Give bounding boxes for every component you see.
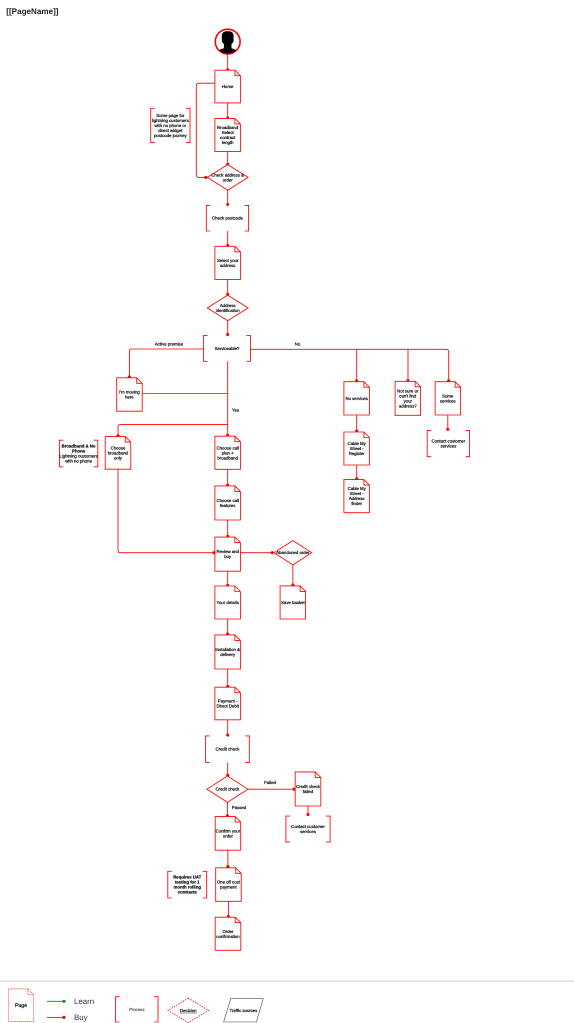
- svg-text:Home: Home: [222, 84, 234, 89]
- svg-text:Save basket: Save basket: [281, 600, 305, 605]
- svg-text:Failed: Failed: [264, 780, 276, 785]
- page Confirm your order: [215, 817, 241, 851]
- wire Abandoned order -> Save basket: [291, 565, 294, 587]
- decision Credit check: [207, 776, 248, 802]
- wire Broadband Select -> Check address diamond: [226, 152, 229, 166]
- wire Select address -> Address identification: [226, 279, 229, 295]
- legend process symbol: [116, 997, 159, 1022]
- wire branch -> Not sure: [406, 349, 409, 382]
- page Cable My Street - Address finder: [344, 480, 370, 513]
- svg-text:Buy: Buy: [74, 1013, 88, 1022]
- wire Choose call plan -> Choose call features: [226, 469, 229, 486]
- svg-text:Credit check: Credit check: [215, 787, 240, 792]
- page No services: [344, 382, 370, 415]
- svg-text:Abandoned order: Abandoned order: [276, 550, 310, 555]
- wire Address identification -> Serviceable: [226, 321, 229, 336]
- annotation Requires UAT testing: [168, 871, 207, 898]
- wire Serviceable -> I'm moving here (Active premise): [128, 349, 204, 378]
- wire Confirm -> One off cost payment: [226, 850, 229, 868]
- decision Abandoned order: [274, 541, 312, 565]
- page Save basket: [280, 586, 306, 619]
- svg-text:Your details: Your details: [217, 600, 239, 605]
- page Choose call plan + broadband: [215, 436, 241, 469]
- legend divider line: [0, 980, 574, 982]
- svg-text:Payment -Direct Debit: Payment -Direct Debit: [216, 699, 239, 709]
- svg-text:Process: Process: [129, 1007, 145, 1012]
- wire features -> Review and buy: [226, 520, 229, 538]
- wire Serviceable -> Some services (No): [251, 349, 451, 382]
- person / user start icon: [215, 29, 240, 64]
- wire One off cost -> Order confirmation: [227, 901, 230, 918]
- svg-text:Broadband & NoPhoneLightning c: Broadband & NoPhoneLightning customerswi…: [59, 444, 97, 464]
- svg-text:Requires UATtesting for 1month: Requires UATtesting for 1month rollingco…: [173, 875, 201, 895]
- edge label Active premise: [155, 341, 184, 346]
- wire Payment -> Credit check process: [226, 720, 229, 737]
- page Some services: [435, 382, 461, 415]
- wire Credit check process -> Credit check decision: [226, 762, 229, 776]
- page Choose call features: [215, 486, 241, 520]
- edge label Yes: [232, 408, 239, 413]
- legend decision symbol: [168, 998, 209, 1022]
- page Payment - Direct Debit: [215, 687, 241, 720]
- page Installation & delivery: [215, 635, 241, 669]
- page Credit check failed: [295, 772, 321, 806]
- svg-text:[[PageName]]: [[PageName]]: [6, 7, 58, 16]
- process Contact customer services (no): [427, 430, 469, 456]
- annotation Broadband & No Phone: [59, 440, 97, 467]
- wire Home -> Broadband Select: [226, 103, 229, 120]
- wire Credit check -> Credit check failed: [248, 788, 296, 791]
- wire Credit check -> Confirm your order (Passed): [226, 802, 229, 817]
- legend buy arrow: [47, 1016, 66, 1019]
- legend label Buy: [74, 1013, 88, 1022]
- page Review and buy: [215, 537, 241, 571]
- svg-text:Learn: Learn: [74, 997, 94, 1006]
- svg-text:Serviceable?: Serviceable?: [215, 346, 240, 351]
- svg-text:Check postcode: Check postcode: [212, 216, 243, 221]
- page I'm moving here: [117, 378, 143, 411]
- svg-text:Active premise: Active premise: [155, 341, 184, 346]
- wire I'm moving here -> join: [142, 393, 228, 395]
- legend label Learn: [74, 997, 94, 1006]
- wire split -> Choose broadband only: [116, 425, 227, 438]
- edge label Failed: [264, 780, 276, 785]
- svg-text:Passed: Passed: [232, 805, 247, 810]
- svg-text:Someservices: Someservices: [440, 393, 456, 403]
- wire Choose broadband only -> Review and buy: [118, 469, 215, 554]
- svg-text:Some page forlightning custome: Some page forlightning customerswith no …: [152, 113, 189, 138]
- wire Review and buy -> Abandoned order: [240, 551, 273, 554]
- decision Check address & order: [207, 165, 248, 191]
- page Home: [215, 70, 241, 103]
- wire Register -> Address finder: [355, 465, 358, 480]
- page Cable My Street - Register: [344, 432, 370, 465]
- svg-text:No: No: [295, 342, 301, 347]
- process Serviceable?: [204, 336, 251, 362]
- wire Your details -> Installation & delivery: [226, 619, 229, 636]
- svg-text:Not sure orcan't findyouraddre: Not sure orcan't findyouraddress?: [397, 388, 419, 408]
- process Credit check: [206, 736, 250, 763]
- edge label No: [295, 342, 301, 347]
- wire Serviceable Yes -> Choose call plan: [226, 361, 229, 437]
- title [[PageName]]: [6, 7, 58, 16]
- svg-text:Contact customerservices: Contact customerservices: [432, 439, 466, 449]
- process Contact customer services (failed): [286, 816, 330, 842]
- process Check postcode: [206, 205, 248, 231]
- svg-text:No services: No services: [345, 396, 367, 401]
- wire Check address -> Check postcode: [226, 190, 229, 206]
- wire Home left -> Check address diamond: [196, 83, 215, 179]
- page Order confirmation: [215, 917, 241, 950]
- svg-text:Decision: Decision: [180, 1008, 197, 1013]
- annotation Some page for lightning customers: [151, 108, 190, 142]
- decision Address identification: [207, 295, 248, 321]
- legend traffic sources parallelogram: [224, 999, 264, 1022]
- page One off cost payment: [216, 868, 242, 902]
- svg-text:Traffic sources: Traffic sources: [230, 1008, 258, 1013]
- wire Some services -> Contact customer services: [446, 415, 449, 431]
- wire Check postcode -> Select your address: [226, 231, 229, 247]
- legend page symbol: [9, 989, 34, 1022]
- legend learn arrow: [47, 1000, 66, 1003]
- wire branch -> No services: [355, 349, 358, 382]
- wire person -> Home: [226, 55, 229, 72]
- svg-text:Page: Page: [15, 1003, 27, 1009]
- wire Review and buy -> Your details: [226, 571, 229, 587]
- page Not sure or can't find your address?: [395, 381, 421, 415]
- page Your details: [215, 586, 241, 619]
- wire No services -> Cable My Street Register: [355, 415, 358, 433]
- edge label Passed: [232, 805, 247, 810]
- wire Credit check failed -> Contact customer services: [306, 806, 309, 816]
- svg-text:Credit check: Credit check: [216, 747, 241, 752]
- page Choose broadband only: [105, 437, 131, 470]
- svg-text:Contact customerservices: Contact customerservices: [291, 824, 325, 834]
- page Select your address: [215, 246, 241, 279]
- svg-text:Yes: Yes: [232, 408, 239, 413]
- wire Installation -> Payment Direct Debit: [226, 669, 229, 688]
- page Broadband Select contract length: [215, 118, 241, 151]
